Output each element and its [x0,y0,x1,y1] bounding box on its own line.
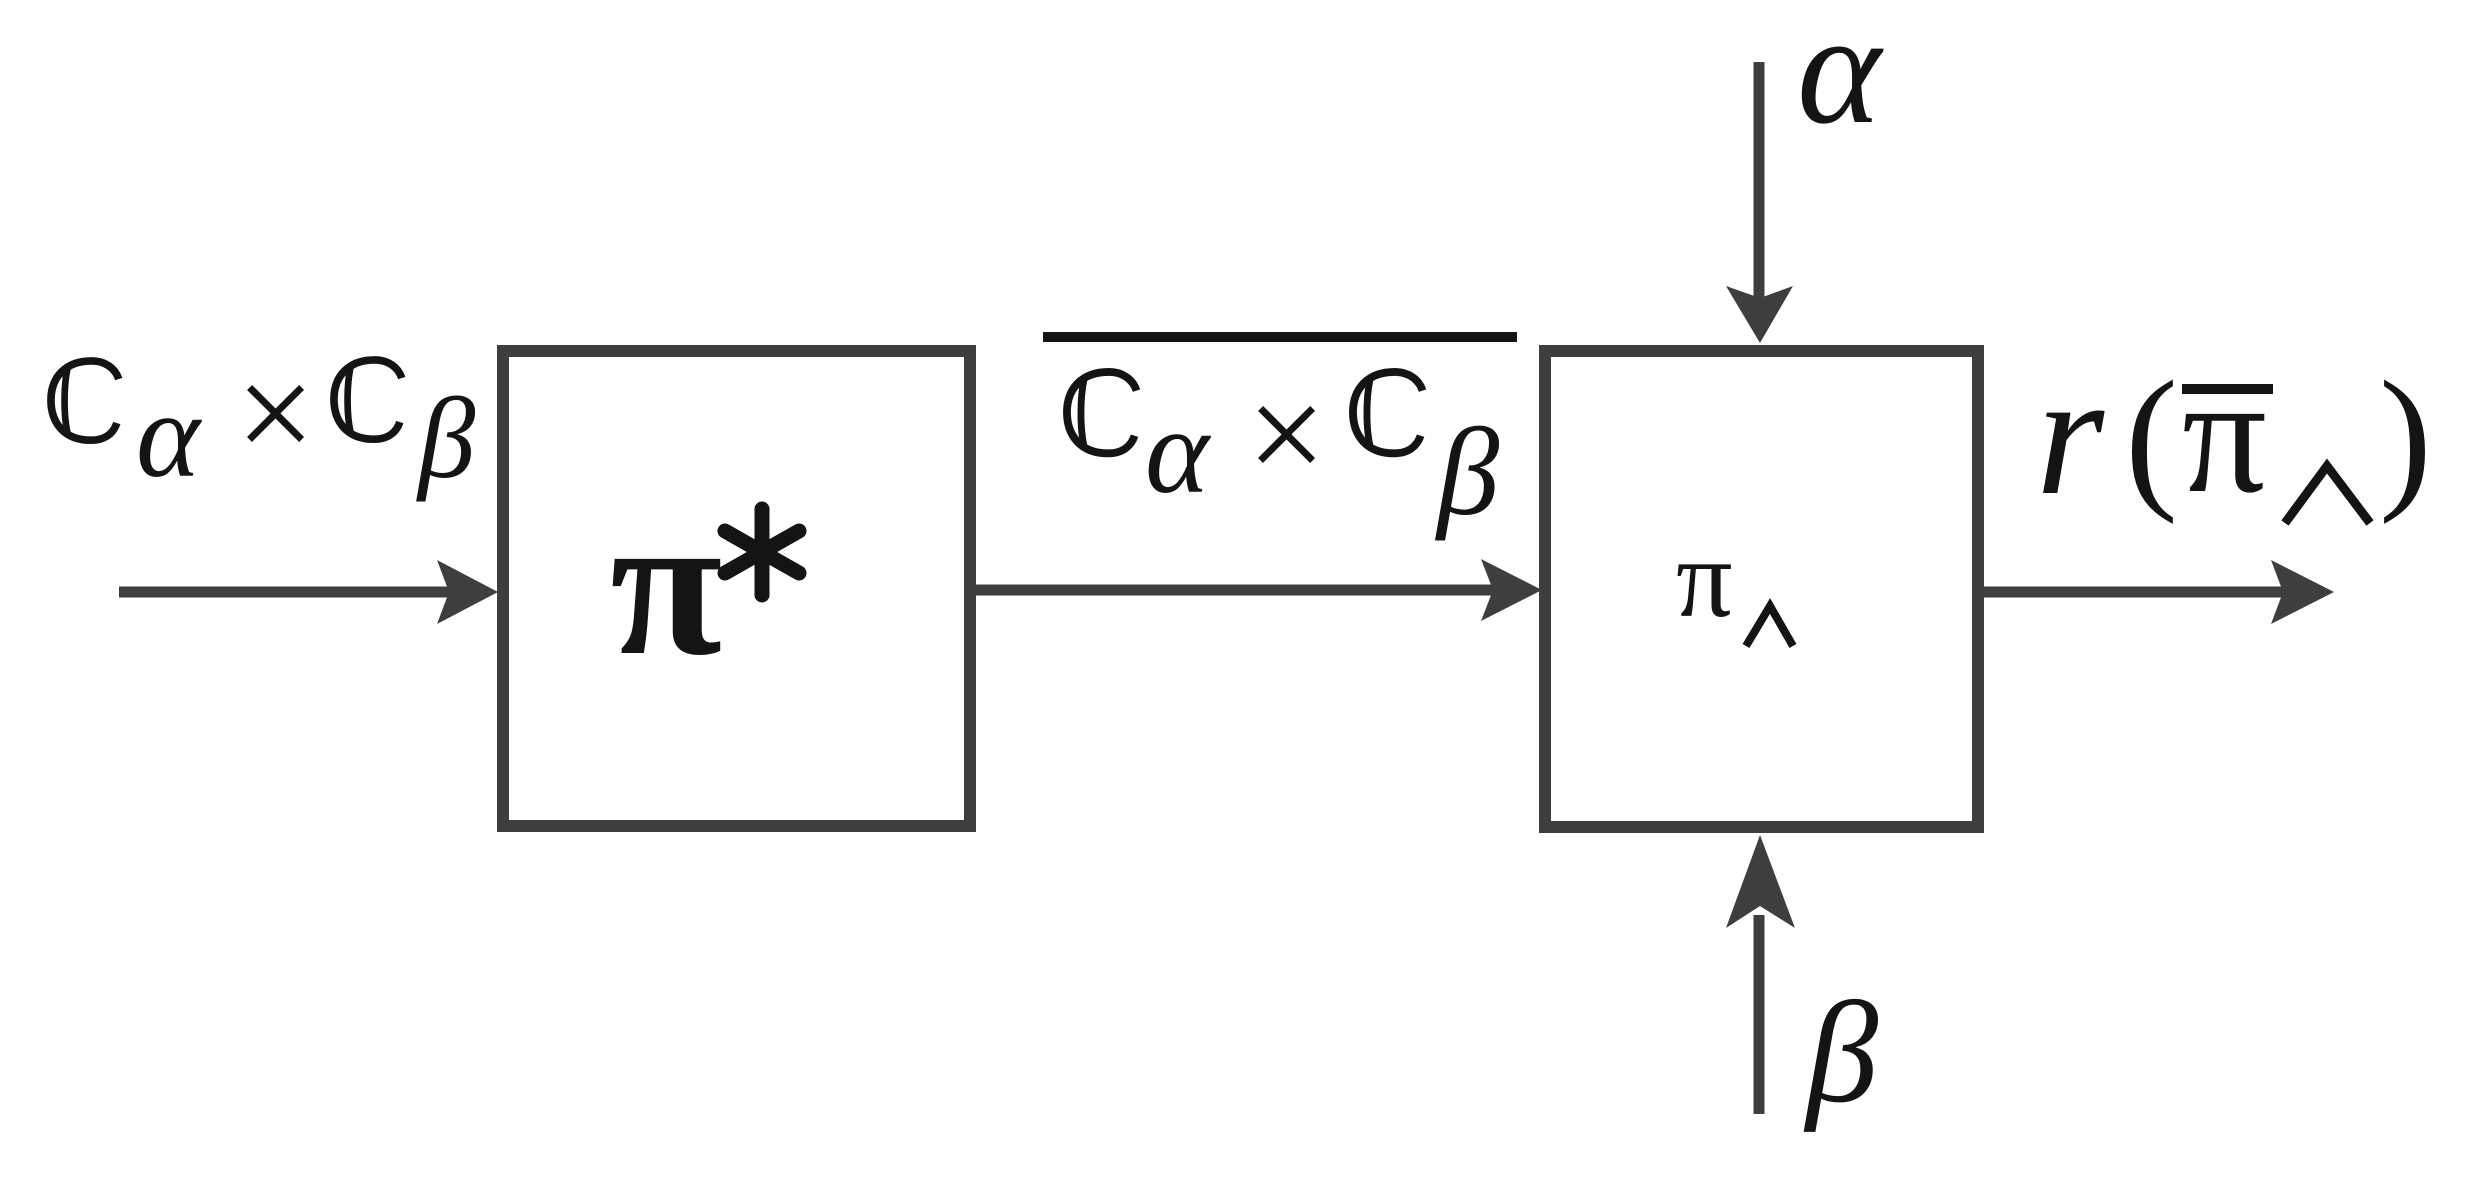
wire arrow pi-star to pi-wedge [975,559,1542,621]
svg-text:×: × [236,336,315,491]
svg-text:): ) [2379,349,2432,525]
svg-text:π: π [2182,342,2267,528]
svg-text:×: × [1247,357,1326,512]
label pi-wedge inside right box [1676,517,1793,646]
label pi-star inside left box [610,471,799,698]
svg-text:α: α [136,368,203,503]
svg-text:α: α [1797,0,1884,157]
node label r(pi-bar-wedge) (output) [2036,337,2432,531]
wire input arrow into pi-star [119,560,498,624]
wire output arrow from pi-wedge [1978,560,2334,624]
blackboard C1 [1067,372,1137,453]
block pi-star (left box) [503,351,970,826]
blackboard C2 [334,360,402,439]
node label overline Ca x Cb (intermediate) [1043,332,1517,542]
block pi-wedge (right box) [1545,351,1978,827]
svg-text:(: ( [2125,349,2178,525]
svg-text:α: α [1145,384,1212,519]
wedge subscript [1746,606,1793,646]
svg-text:β: β [1803,973,1878,1133]
wire bottom input arrow beta [1726,835,1795,1114]
blackboard C2 [1353,372,1423,453]
svg-text:π: π [1676,517,1733,641]
svg-text:r: r [2036,337,2105,531]
svg-text:β: β [416,375,476,502]
wedge subscript [2285,466,2370,523]
blackboard C1 [51,361,119,440]
node label Ca x Cb (input) [51,336,476,503]
overline bar [1043,332,1517,342]
svg-text:β: β [1434,404,1500,542]
wire top input arrow alpha [1726,62,1793,343]
svg-text:π: π [610,471,722,698]
